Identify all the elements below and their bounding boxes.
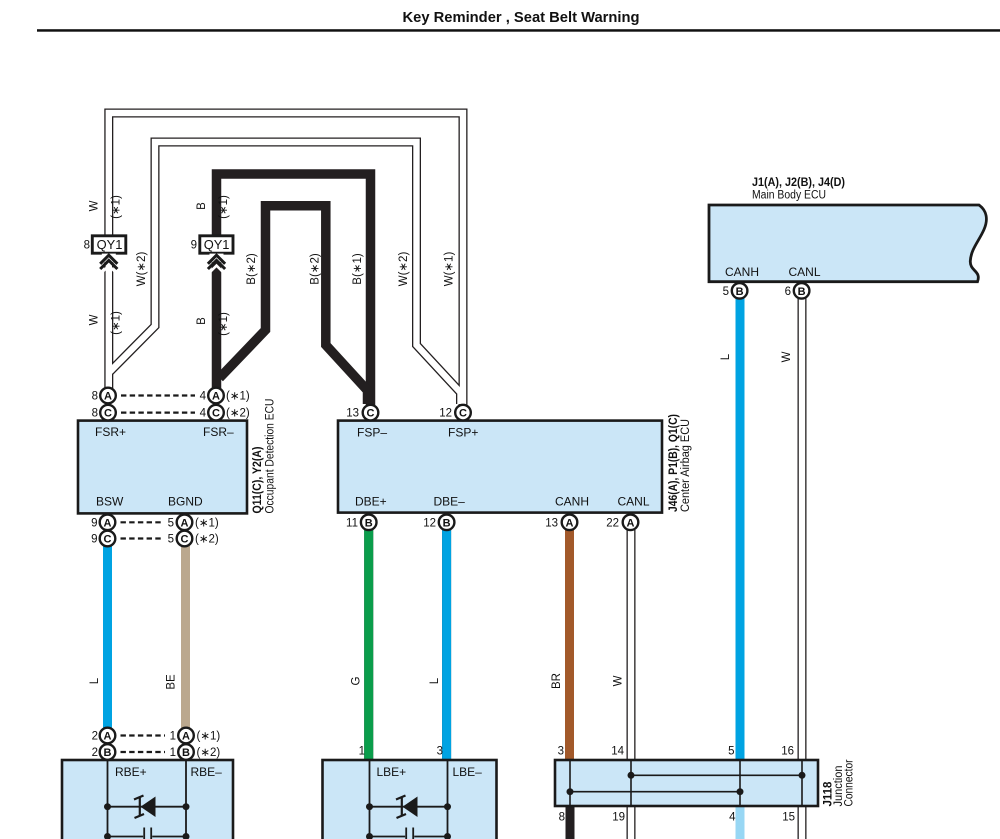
svg-text:9: 9: [91, 517, 97, 529]
svg-text:A: A: [104, 391, 112, 403]
svg-text:BE: BE: [166, 674, 178, 690]
svg-text:W: W: [89, 200, 101, 211]
svg-text:B: B: [443, 517, 451, 529]
svg-text:(∗2): (∗2): [226, 408, 250, 420]
svg-text:W: W: [613, 675, 625, 686]
svg-text:G: G: [351, 676, 363, 685]
svg-text:Occupant Detection ECU: Occupant Detection ECU: [265, 399, 277, 514]
svg-text:Center Airbag ECU: Center Airbag ECU: [680, 419, 692, 512]
svg-text:RBE+: RBE+: [115, 765, 147, 779]
svg-text:J1(A), J2(B), J4(D): J1(A), J2(B), J4(D): [752, 177, 845, 189]
svg-text:3: 3: [437, 746, 443, 758]
svg-text:(∗1): (∗1): [197, 731, 221, 743]
svg-text:(∗1): (∗1): [218, 195, 230, 219]
svg-text:W(∗1): W(∗1): [444, 252, 456, 287]
svg-text:5: 5: [168, 517, 174, 529]
svg-text:RBE–: RBE–: [191, 765, 223, 779]
svg-text:Q11(C), Y2(A): Q11(C), Y2(A): [252, 446, 264, 513]
svg-text:B: B: [736, 286, 744, 298]
svg-text:L: L: [720, 353, 732, 360]
svg-text:3: 3: [558, 746, 564, 758]
svg-text:B: B: [196, 317, 208, 325]
svg-text:(∗1): (∗1): [218, 312, 230, 336]
svg-text:(∗1): (∗1): [195, 517, 219, 529]
svg-text:1: 1: [170, 731, 176, 743]
svg-text:4: 4: [200, 408, 207, 420]
svg-text:LBE+: LBE+: [377, 765, 407, 779]
svg-text:2: 2: [92, 731, 98, 743]
svg-text:FSP+: FSP+: [448, 426, 478, 440]
svg-text:5: 5: [728, 746, 734, 758]
svg-text:A: A: [181, 517, 189, 529]
svg-text:4: 4: [200, 391, 207, 403]
svg-text:B: B: [798, 286, 806, 298]
svg-text:5: 5: [723, 286, 729, 298]
svg-text:12: 12: [439, 408, 452, 420]
svg-text:Main Body ECU: Main Body ECU: [752, 190, 826, 202]
svg-text:8: 8: [84, 240, 90, 252]
svg-text:(∗1): (∗1): [226, 391, 250, 403]
svg-text:A: A: [212, 391, 220, 403]
svg-text:W(∗2): W(∗2): [136, 252, 148, 287]
svg-text:FSR–: FSR–: [203, 425, 234, 439]
svg-text:B: B: [365, 517, 373, 529]
svg-text:C: C: [181, 534, 189, 546]
svg-text:19: 19: [612, 812, 625, 824]
svg-text:L: L: [429, 677, 441, 684]
svg-text:FSR+: FSR+: [95, 425, 126, 439]
svg-text:CANH: CANH: [555, 495, 589, 509]
svg-text:B(∗1): B(∗1): [352, 253, 364, 285]
svg-text:BGND: BGND: [168, 495, 203, 509]
svg-text:15: 15: [782, 812, 795, 824]
svg-text:C: C: [212, 408, 220, 420]
svg-text:L: L: [89, 677, 101, 684]
svg-text:5: 5: [168, 534, 174, 546]
svg-text:DBE–: DBE–: [434, 495, 466, 509]
svg-text:1: 1: [170, 747, 176, 759]
svg-text:QY1: QY1: [97, 237, 123, 252]
svg-text:2: 2: [92, 747, 98, 759]
svg-text:B(∗2): B(∗2): [246, 253, 258, 285]
svg-text:A: A: [104, 517, 112, 529]
svg-text:CANH: CANH: [725, 265, 759, 279]
svg-text:(∗1): (∗1): [111, 311, 123, 335]
svg-text:16: 16: [781, 746, 794, 758]
svg-text:BSW: BSW: [96, 495, 124, 509]
svg-text:13: 13: [346, 408, 359, 420]
svg-text:A: A: [182, 731, 190, 743]
svg-text:(∗2): (∗2): [195, 534, 219, 546]
svg-text:A: A: [627, 517, 635, 529]
svg-text:8: 8: [559, 812, 565, 824]
svg-text:B(∗2): B(∗2): [310, 253, 322, 285]
svg-text:4: 4: [729, 812, 736, 824]
svg-text:LBE–: LBE–: [453, 765, 483, 779]
svg-text:12: 12: [423, 517, 436, 529]
svg-text:14: 14: [611, 746, 624, 758]
svg-text:A: A: [566, 517, 574, 529]
svg-text:B: B: [182, 747, 190, 759]
svg-text:J46(A), P1(B), Q1(C): J46(A), P1(B), Q1(C): [668, 414, 680, 512]
svg-text:W: W: [781, 351, 793, 362]
svg-text:DBE+: DBE+: [355, 495, 387, 509]
svg-text:22: 22: [606, 517, 619, 529]
svg-text:11: 11: [346, 517, 358, 529]
svg-text:W: W: [89, 314, 101, 325]
svg-text:Key Reminder , Seat Belt Warni: Key Reminder , Seat Belt Warning: [403, 10, 640, 26]
svg-text:B: B: [104, 747, 112, 759]
svg-text:CANL: CANL: [789, 265, 821, 279]
svg-text:(∗2): (∗2): [197, 747, 221, 759]
svg-text:BR: BR: [551, 673, 563, 689]
svg-text:C: C: [367, 408, 375, 420]
svg-text:13: 13: [545, 517, 558, 529]
svg-text:QY1: QY1: [204, 237, 230, 252]
svg-text:C: C: [459, 408, 467, 420]
svg-text:9: 9: [191, 240, 197, 252]
svg-text:B: B: [196, 202, 208, 210]
svg-text:(∗1): (∗1): [111, 195, 123, 219]
svg-text:9: 9: [91, 534, 97, 546]
svg-text:C: C: [104, 408, 112, 420]
svg-text:8: 8: [92, 391, 98, 403]
svg-text:CANL: CANL: [618, 495, 650, 509]
svg-text:C: C: [104, 534, 112, 546]
svg-text:FSP–: FSP–: [357, 426, 387, 440]
svg-text:6: 6: [785, 286, 791, 298]
svg-text:8: 8: [92, 408, 98, 420]
svg-text:W(∗2): W(∗2): [398, 252, 410, 287]
svg-text:Connector: Connector: [844, 759, 856, 806]
svg-text:1: 1: [359, 746, 365, 758]
svg-text:A: A: [104, 731, 112, 743]
